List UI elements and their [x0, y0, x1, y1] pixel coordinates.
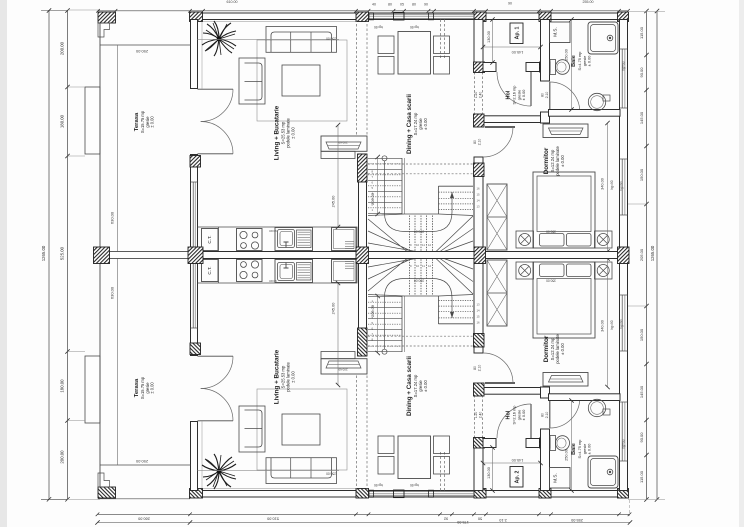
kitchen counter — [198, 227, 358, 250]
svg-text:90: 90 — [508, 2, 512, 6]
bedroom/stair wall column — [474, 163, 485, 177]
svg-text:16: 16 — [477, 320, 481, 324]
dining window center mullion — [394, 12, 405, 20]
kitchen stove with burners — [237, 229, 263, 251]
svg-text:340.00: 340.00 — [601, 178, 605, 190]
vestibule entry door swing arc — [497, 72, 531, 106]
svg-text:145.00: 145.00 — [639, 111, 644, 124]
bedroom door swing arc — [483, 127, 513, 157]
svg-text:90: 90 — [424, 3, 428, 7]
shelf below tv cabinet — [321, 151, 355, 158]
svg-text:175.00: 175.00 — [457, 520, 469, 524]
stair walking line with start circle and arrow — [382, 156, 387, 161]
terrace french door leaf upper — [198, 88, 234, 90]
svg-text:630.00: 630.00 — [110, 211, 115, 224]
svg-text:hg=90: hg=90 — [374, 483, 383, 487]
svg-text:80: 80 — [540, 93, 544, 97]
svg-text:205.00: 205.00 — [639, 248, 644, 261]
svg-text:05: 05 — [400, 3, 404, 7]
svg-text:Dormitor: Dormitor — [543, 147, 550, 174]
vestibule bottom wall left piece — [483, 63, 496, 72]
svg-text:245.00: 245.00 — [332, 196, 336, 208]
apartment 1 (top unit) geometry — [85, 12, 629, 254]
svg-text:hg=90: hg=90 — [610, 180, 614, 189]
svg-text:14: 14 — [477, 308, 481, 312]
terrace divider column — [94, 247, 110, 264]
washing machine — [550, 22, 571, 43]
svg-text:630.00: 630.00 — [110, 286, 115, 299]
kitchen drainer hatch — [297, 230, 312, 248]
svg-text:150.00: 150.00 — [639, 328, 644, 341]
svg-text:2.10: 2.10 — [545, 92, 549, 99]
svg-text:90.60: 90.60 — [269, 229, 277, 233]
terrace french door swing arc upper — [201, 89, 233, 121]
bathroom dim line 250 — [571, 20, 573, 110]
svg-text:90.00: 90.00 — [639, 432, 644, 443]
open beam dashed lines living/dining — [356, 20, 358, 137]
dining window jamb block right — [429, 13, 434, 20]
svg-text:145.00: 145.00 — [639, 385, 644, 398]
dining table — [398, 32, 431, 75]
svg-text:Dining + Casa scarii: Dining + Casa scarii — [406, 94, 413, 154]
svg-text:M.S.: M.S. — [553, 27, 558, 36]
svg-text:525.00: 525.00 — [60, 246, 65, 260]
toilet — [550, 60, 556, 75]
svg-text:12: 12 — [428, 243, 432, 247]
terrace outer edge — [99, 23, 101, 252]
top wall column right corner — [618, 12, 629, 22]
left dimension line segments — [67, 10, 69, 499]
svg-text:Dining + Casa scarii: Dining + Casa scarii — [406, 356, 413, 416]
bedroom dim line 340 — [607, 123, 609, 252]
vestibule bottom wall right piece — [526, 63, 540, 72]
svg-text:255.00: 255.00 — [571, 518, 583, 522]
svg-text:Dormitor: Dormitor — [543, 335, 550, 362]
svg-text:610.00: 610.00 — [227, 0, 238, 4]
svg-text:± 0.00: ± 0.00 — [587, 55, 592, 67]
svg-text:2.10: 2.10 — [499, 518, 506, 522]
svg-text:250.00: 250.00 — [326, 472, 336, 476]
svg-text:11: 11 — [422, 264, 425, 268]
page right edge shading — [739, 0, 744, 527]
bed pillow left — [540, 234, 565, 247]
svg-text:1265.00: 1265.00 — [41, 245, 46, 261]
svg-text:250.00: 250.00 — [565, 49, 569, 61]
svg-text:Ap. 2: Ap. 2 — [515, 471, 521, 484]
bottom terrace edge extension — [98, 498, 190, 500]
svg-text:80: 80 — [388, 3, 392, 7]
party wall column at right exterior wall — [618, 247, 630, 264]
bedroom/stair wall lower segment — [474, 157, 483, 252]
bedroom top wall (hollow partition) — [484, 116, 541, 123]
stair left wall column — [358, 154, 368, 182]
svg-text:hg=90: hg=90 — [622, 439, 626, 449]
stair winder fan left — [368, 214, 416, 252]
svg-text:± 0.00: ± 0.00 — [423, 380, 428, 392]
bed pillow right — [567, 234, 592, 247]
svg-text:510.00: 510.00 — [267, 517, 279, 521]
svg-text:90.00: 90.00 — [639, 67, 644, 78]
svg-text:M.S.: M.S. — [553, 473, 558, 482]
stair open-above dashed break lines — [368, 163, 473, 165]
top wall column living/dining — [356, 12, 369, 22]
svg-text:Baie: Baie — [571, 443, 577, 455]
svg-text:2.10: 2.10 — [478, 365, 482, 372]
svg-text:150.00: 150.00 — [639, 168, 644, 181]
vestibule entry door leaf — [530, 72, 532, 106]
svg-text:C.T.: C.T. — [207, 266, 212, 274]
kitchen dimension line 245 — [337, 125, 339, 227]
party wall column at living-room wall — [188, 247, 203, 264]
svg-text:80: 80 — [540, 413, 544, 417]
bottom dimension line — [98, 513, 630, 515]
svg-text:± 0.00: ± 0.00 — [560, 155, 565, 167]
svg-text:12: 12 — [428, 264, 432, 268]
svg-text:13: 13 — [477, 302, 481, 306]
terrace exterior step — [85, 87, 100, 154]
left wall column at terrace door — [190, 156, 201, 168]
svg-text:80: 80 — [473, 366, 477, 370]
nightstand right with lamp — [595, 231, 613, 248]
stair upper flight treads — [368, 157, 402, 159]
terrace corner column top-left — [98, 12, 116, 23]
top wall column dining/vestibule — [474, 12, 486, 22]
svg-text:15: 15 — [477, 314, 481, 318]
svg-text:9: 9 — [410, 264, 412, 268]
vestibule dim line 145 — [483, 46, 541, 48]
svg-text:± 0.00: ± 0.00 — [150, 382, 155, 394]
svg-text:1.20: 1.20 — [474, 412, 478, 419]
svg-text:2.40: 2.40 — [479, 412, 483, 419]
svg-text:± 0.00: ± 0.00 — [423, 118, 428, 130]
coffee table — [282, 65, 320, 96]
dining chair bottom-left — [378, 57, 394, 75]
svg-text:hg=90: hg=90 — [620, 319, 624, 329]
stair winder treads lower flight — [408, 216, 410, 252]
svg-text:130.00: 130.00 — [487, 467, 491, 479]
svg-text:± 0.00: ± 0.00 — [150, 116, 155, 128]
armchair loveseat — [239, 58, 265, 104]
svg-text:hg=90: hg=90 — [410, 25, 419, 29]
svg-text:2.40: 2.40 — [479, 92, 483, 99]
svg-text:145.00: 145.00 — [512, 458, 524, 462]
svg-text:± 0.00: ± 0.00 — [521, 89, 526, 101]
decorative plant top-left of living room — [202, 21, 236, 56]
svg-text:8: 8 — [372, 170, 374, 174]
open passage dashed lines dining/hall — [474, 72, 476, 114]
svg-text:350.00: 350.00 — [546, 279, 556, 283]
svg-text:5: 5 — [372, 186, 374, 190]
svg-text:C.T.: C.T. — [207, 235, 212, 243]
svg-text:180.00: 180.00 — [60, 114, 65, 128]
svg-text:hg=90: hg=90 — [410, 483, 419, 487]
svg-text:115.00: 115.00 — [639, 470, 644, 483]
svg-text:hg=90: hg=90 — [610, 320, 614, 329]
party wall column at stair wall — [356, 247, 369, 264]
hall wall junction column — [474, 62, 485, 73]
bottom total dimension line — [98, 522, 631, 524]
svg-text:10: 10 — [416, 264, 420, 268]
stair right flight treads — [439, 185, 474, 187]
svg-text:245.00: 245.00 — [332, 303, 336, 315]
stair dim line 200 — [377, 157, 379, 214]
svg-text:115.00: 115.00 — [639, 26, 644, 39]
stair left wall — [359, 154, 367, 252]
svg-text:9: 9 — [410, 243, 412, 247]
svg-text:± 0.00: ± 0.00 — [291, 127, 296, 139]
bathroom window in right wall — [621, 49, 623, 108]
living room rug — [257, 40, 347, 121]
svg-text:390.00: 390.00 — [414, 230, 424, 234]
bathroom sink — [588, 93, 605, 110]
svg-text:390.00: 390.00 — [414, 279, 424, 283]
svg-text:± 0.00: ± 0.00 — [587, 443, 592, 455]
svg-text:Ap. 1: Ap. 1 — [515, 27, 521, 40]
svg-text:2.10: 2.10 — [478, 139, 482, 146]
reference line through living room — [198, 38, 340, 40]
svg-text:80: 80 — [473, 140, 477, 144]
bathroom bottom wall — [549, 110, 621, 117]
svg-text:14: 14 — [477, 199, 481, 203]
svg-text:7: 7 — [372, 175, 374, 179]
svg-text:250.00: 250.00 — [135, 49, 148, 54]
left wall segment below terrace door — [191, 155, 198, 253]
svg-text:10: 10 — [416, 243, 420, 247]
svg-text:40: 40 — [372, 3, 376, 7]
terrace length dimension line — [117, 45, 119, 252]
top exterior wall — [190, 13, 628, 20]
left extension lines — [68, 9, 101, 11]
svg-text:hg=90: hg=90 — [622, 61, 626, 71]
svg-text:200.60: 200.60 — [338, 368, 348, 372]
svg-text:hg=90: hg=90 — [374, 25, 383, 29]
svg-text:92: 92 — [444, 517, 448, 521]
kitchen window in left wall — [192, 182, 194, 247]
bedroom dresser — [543, 124, 588, 138]
bedroom door leaf against wall — [485, 126, 515, 128]
svg-text:Baie: Baie — [571, 55, 577, 67]
svg-text:200.60: 200.60 — [338, 141, 348, 145]
svg-text:6: 6 — [372, 181, 374, 185]
dining chair bottom-right — [434, 57, 450, 75]
svg-text:Hol: Hol — [506, 90, 512, 99]
svg-text:15: 15 — [477, 193, 481, 197]
dining window jamb block left — [369, 13, 374, 20]
terrace door opening end caps — [191, 88, 198, 90]
terrace corner step detail — [98, 23, 110, 37]
svg-text:1.20: 1.20 — [474, 92, 478, 99]
party wall between Ap.1 and Ap.2 — [190, 252, 628, 259]
bottom dim extension line — [629, 500, 631, 516]
svg-text:Terasa: Terasa — [134, 378, 140, 397]
right exterior wall — [620, 20, 628, 253]
svg-text:Hol: Hol — [506, 410, 512, 419]
svg-text:13: 13 — [477, 205, 481, 209]
svg-text:± 0.00: ± 0.00 — [521, 409, 526, 421]
terrace divider railing between the two terraces — [100, 252, 191, 259]
bathroom left wall lower stub — [541, 112, 550, 123]
stair winder fan right — [436, 214, 473, 252]
terrace top edge line — [100, 44, 191, 46]
nightstand left with lamp — [516, 231, 534, 248]
wardrobe with cross bracing — [487, 184, 507, 250]
stairwell void boundary — [405, 213, 439, 215]
stair upper flight edge — [401, 158, 403, 214]
top dimension line — [98, 10, 628, 12]
apartment 2 (bottom unit) geometry, mirrored — [85, 256, 629, 498]
svg-text:± 0.00: ± 0.00 — [291, 371, 296, 383]
left outer dimension line 1265 — [48, 10, 50, 499]
svg-text:250.00: 250.00 — [135, 459, 148, 464]
svg-text:1: 1 — [372, 208, 374, 212]
vestibule dim line 130 — [492, 20, 494, 63]
svg-text:Terasa: Terasa — [134, 112, 140, 131]
apartment label box — [510, 23, 523, 44]
beam dashed lines in dining — [440, 20, 442, 61]
top wall column living left corner — [190, 12, 203, 22]
hall wall column — [474, 114, 485, 127]
kitchen fridge — [332, 228, 357, 251]
svg-text:80: 80 — [412, 3, 416, 7]
svg-text:Living + Bucatarie: Living + Bucatarie — [274, 349, 281, 404]
svg-text:250.00: 250.00 — [565, 449, 569, 461]
svg-text:255.00: 255.00 — [583, 0, 594, 4]
svg-text:180.00: 180.00 — [60, 379, 65, 393]
double bed — [533, 172, 595, 248]
svg-text:200.00: 200.00 — [60, 450, 65, 464]
left exterior wall upper segment — [191, 20, 198, 89]
svg-text:hg=90: hg=90 — [620, 181, 624, 191]
svg-text:11: 11 — [422, 243, 425, 247]
shower tray — [588, 22, 618, 54]
dining/hall wall upper segment — [474, 20, 483, 73]
right dimension line segments — [646, 11, 648, 500]
bathroom door swing arc — [550, 82, 580, 112]
party wall column at bedroom wall — [474, 247, 486, 264]
bathroom door leaf — [549, 82, 551, 112]
sofa — [266, 27, 337, 53]
bathroom left wall upper — [541, 20, 550, 82]
dining chair top-left — [378, 36, 394, 54]
svg-text:50: 50 — [478, 517, 482, 521]
svg-text:350.00: 350.00 — [546, 230, 556, 234]
terrace french door swing arc lower — [201, 122, 233, 154]
svg-text:200.00: 200.00 — [60, 41, 65, 55]
svg-text:250.00: 250.00 — [326, 37, 336, 41]
svg-text:2.10: 2.10 — [545, 412, 549, 419]
svg-text:16: 16 — [477, 187, 481, 191]
top wall inner face line — [203, 21, 356, 23]
svg-text:145.00: 145.00 — [512, 50, 524, 54]
svg-text:± 0.00: ± 0.00 — [560, 343, 565, 355]
dining chair top-right — [434, 36, 450, 54]
boiler C.T. box — [202, 229, 219, 251]
page left edge shading — [0, 0, 7, 527]
dining window in top wall — [369, 13, 474, 15]
tv cabinet against stair wall — [321, 136, 367, 151]
kitchen sink unit — [275, 228, 313, 251]
terrace french door leaf lower — [198, 153, 234, 155]
bedroom window in right wall — [621, 159, 623, 215]
right outer dimension line 1265 — [656, 11, 658, 500]
svg-text:90.60: 90.60 — [269, 279, 277, 283]
vestibule wall column at bathroom wall — [540, 62, 551, 72]
svg-text:1265.00: 1265.00 — [650, 245, 655, 261]
svg-text:130.00: 130.00 — [487, 31, 491, 43]
svg-text:Living + Bucatarie: Living + Bucatarie — [274, 105, 281, 160]
top wall column vestibule/bathroom — [539, 12, 551, 22]
left wall inner face line — [201, 22, 203, 89]
svg-text:260.00: 260.00 — [138, 517, 150, 521]
svg-text:340.00: 340.00 — [601, 320, 605, 332]
